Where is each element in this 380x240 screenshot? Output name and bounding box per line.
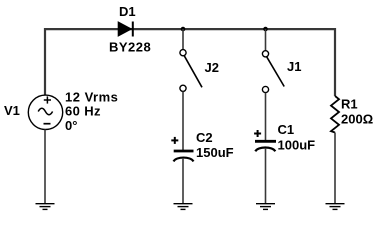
wire node B to switch J1 xyxy=(265,29,267,51)
node B junction dot xyxy=(263,27,268,32)
polarity plus C2 xyxy=(171,137,178,144)
resistor R1 xyxy=(331,96,339,133)
svg-text:R1: R1 xyxy=(341,97,358,112)
svg-text:150uF: 150uF xyxy=(196,145,234,160)
svg-text:60 Hz: 60 Hz xyxy=(65,104,101,119)
wire C2 to ground xyxy=(182,158,184,204)
switch J2 xyxy=(180,50,202,92)
capacitor C1 xyxy=(255,141,276,151)
wire node A to switch J2 xyxy=(182,29,184,50)
voltage source V1 xyxy=(28,95,62,129)
switch J1 xyxy=(262,51,284,93)
ground under C1 xyxy=(256,204,275,210)
svg-text:BY228: BY228 xyxy=(109,40,151,55)
ground under C2 xyxy=(174,204,193,210)
wire C1 to ground xyxy=(265,148,267,204)
svg-text:V1: V1 xyxy=(4,103,20,118)
ground under V1 xyxy=(36,204,55,210)
svg-text:0°: 0° xyxy=(65,118,77,133)
svg-text:J1: J1 xyxy=(287,59,301,74)
capacitor C2 xyxy=(174,151,194,161)
svg-text:C1: C1 xyxy=(278,122,295,137)
wire V1 bottom to ground xyxy=(44,130,46,204)
wire switch J2 to capacitor C2 xyxy=(182,92,184,151)
svg-text:100uF: 100uF xyxy=(278,138,316,153)
node A junction dot xyxy=(181,27,186,32)
wire R1 to ground xyxy=(334,133,336,204)
wire switch J1 to capacitor C1 xyxy=(265,93,267,140)
svg-text:J2: J2 xyxy=(205,60,219,75)
svg-text:D1: D1 xyxy=(119,4,136,19)
wire top bus from V1 to R1 xyxy=(45,29,335,96)
svg-text:C2: C2 xyxy=(196,130,213,145)
svg-text:200Ω: 200Ω xyxy=(341,111,373,126)
polarity plus C1 xyxy=(254,130,261,137)
svg-text:12 Vrms: 12 Vrms xyxy=(65,90,118,105)
ground under R1 xyxy=(326,204,345,210)
diode D1 xyxy=(118,22,133,37)
